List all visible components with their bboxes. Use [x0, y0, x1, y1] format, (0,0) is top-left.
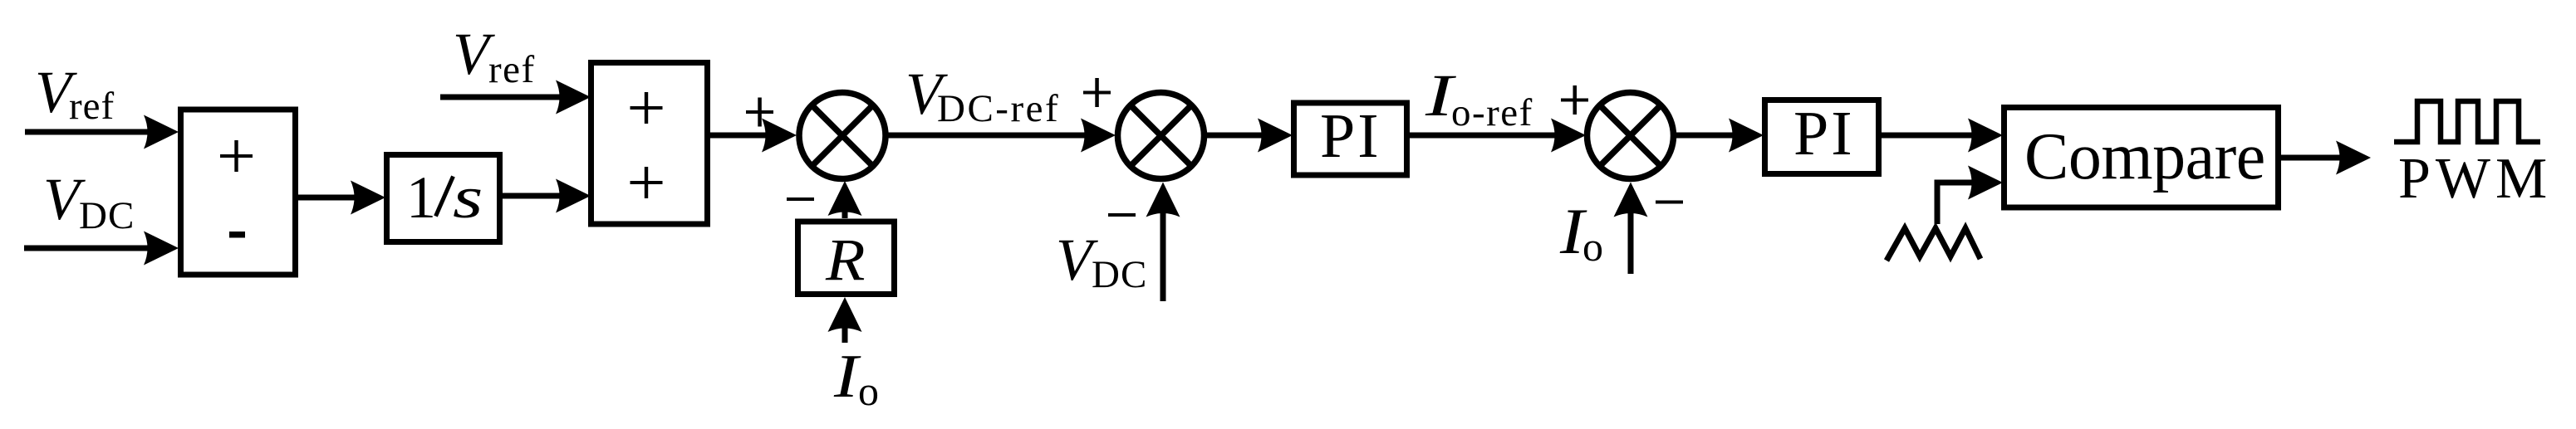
wire	[1882, 133, 1991, 139]
node V_ref label (top-left)	[35, 59, 115, 128]
wire (L-shaped from carrier)	[1937, 183, 1991, 224]
svg-text:DC: DC	[1092, 253, 1147, 296]
minus sign above V_DC arrow	[1108, 213, 1136, 217]
wire	[842, 309, 848, 343]
svg-text:s: s	[453, 165, 483, 231]
multiplier M3 (circle with X)	[1587, 93, 1674, 179]
wire	[25, 129, 166, 135]
arrowhead into M3 from below	[1614, 183, 1648, 217]
wire	[1160, 193, 1166, 301]
arrowhead into multiplier M3	[1551, 119, 1586, 153]
PWM square waveform	[2394, 101, 2540, 142]
wire	[710, 133, 786, 139]
wire	[1628, 193, 1634, 274]
multiplier M1 (circle with X)	[799, 93, 886, 179]
wire	[1205, 133, 1281, 139]
carrier sawtooth waveform	[1887, 228, 1980, 261]
wire	[503, 193, 578, 199]
node V_DC label (below M2)	[1056, 227, 1147, 296]
arrowhead into integrator block 1/s	[351, 181, 385, 215]
wire	[2281, 155, 2359, 161]
arrowhead into M1 from below (from R block)	[828, 181, 862, 216]
svg-text:PI: PI	[1793, 99, 1855, 168]
Compare block	[2004, 108, 2279, 208]
wire	[1410, 133, 1574, 139]
wire	[24, 246, 166, 251]
arrowhead into PI block 1	[1258, 119, 1293, 153]
wire	[1676, 133, 1752, 139]
plus sign top in S2	[631, 92, 663, 124]
arrowhead into Compare block input 2	[1968, 166, 2003, 200]
arrowhead at PWM output	[2336, 141, 2371, 175]
arrowhead into multiplier M1	[762, 119, 797, 153]
svg-text:DC: DC	[79, 194, 135, 237]
svg-text:o: o	[858, 368, 879, 414]
wire	[842, 193, 848, 218]
arrowhead into summing block S2 bottom input	[556, 179, 591, 213]
summing block S2	[591, 63, 708, 225]
svg-text:Compare: Compare	[2024, 120, 2265, 193]
plus sign at M1 input	[746, 98, 773, 127]
node I_o label (below R)	[833, 342, 879, 414]
plus sign at M3 input	[1561, 85, 1588, 115]
arrowhead into Compare block input 1	[1968, 119, 2003, 153]
node I_o label (left of arrow)	[1559, 195, 1603, 270]
svg-text:o-ref: o-ref	[1451, 91, 1533, 134]
minus sign below-left of M1	[787, 197, 814, 201]
node V_ref label (above S2)	[453, 21, 536, 91]
arrowhead into summing block S1 top input	[144, 115, 179, 149]
arrowhead into M2 from below	[1146, 183, 1180, 217]
svg-text:o: o	[1582, 223, 1603, 270]
summing block S1	[181, 110, 296, 275]
integrator block 1/s	[387, 155, 500, 242]
svg-text:DC-ref: DC-ref	[937, 87, 1060, 130]
svg-text:1: 1	[406, 164, 436, 231]
node I_o-ref label	[1425, 62, 1533, 134]
minus sign in S1	[229, 232, 245, 238]
node V_DC label (left)	[43, 166, 135, 237]
node V_DC-ref label	[905, 61, 1060, 130]
arrowhead into multiplier M2	[1081, 119, 1116, 153]
PI block 1	[1294, 103, 1407, 175]
wire	[888, 133, 1104, 139]
PI block 2	[1765, 100, 1879, 174]
arrowhead into summing block S1 bottom input	[144, 232, 179, 266]
arrowhead into PI block 2	[1729, 119, 1764, 153]
svg-text:PWM: PWM	[2398, 147, 2552, 211]
svg-text:ref: ref	[69, 85, 115, 128]
svg-text:ref: ref	[488, 48, 536, 91]
svg-text:PI: PI	[1320, 101, 1381, 171]
minus sign right of I_o arrow	[1656, 201, 1683, 204]
plus sign in S1	[220, 140, 253, 172]
svg-text:R: R	[825, 227, 866, 294]
gain block R	[798, 222, 895, 295]
arrowhead into R block from below	[828, 297, 862, 332]
arrowhead into summing block S2 top input	[556, 80, 591, 115]
plus sign at M2 input	[1083, 78, 1111, 107]
wire	[440, 95, 578, 100]
multiplier M2 (circle with X)	[1118, 93, 1205, 179]
wire	[298, 195, 374, 201]
plus sign bottom in S2	[631, 167, 663, 198]
